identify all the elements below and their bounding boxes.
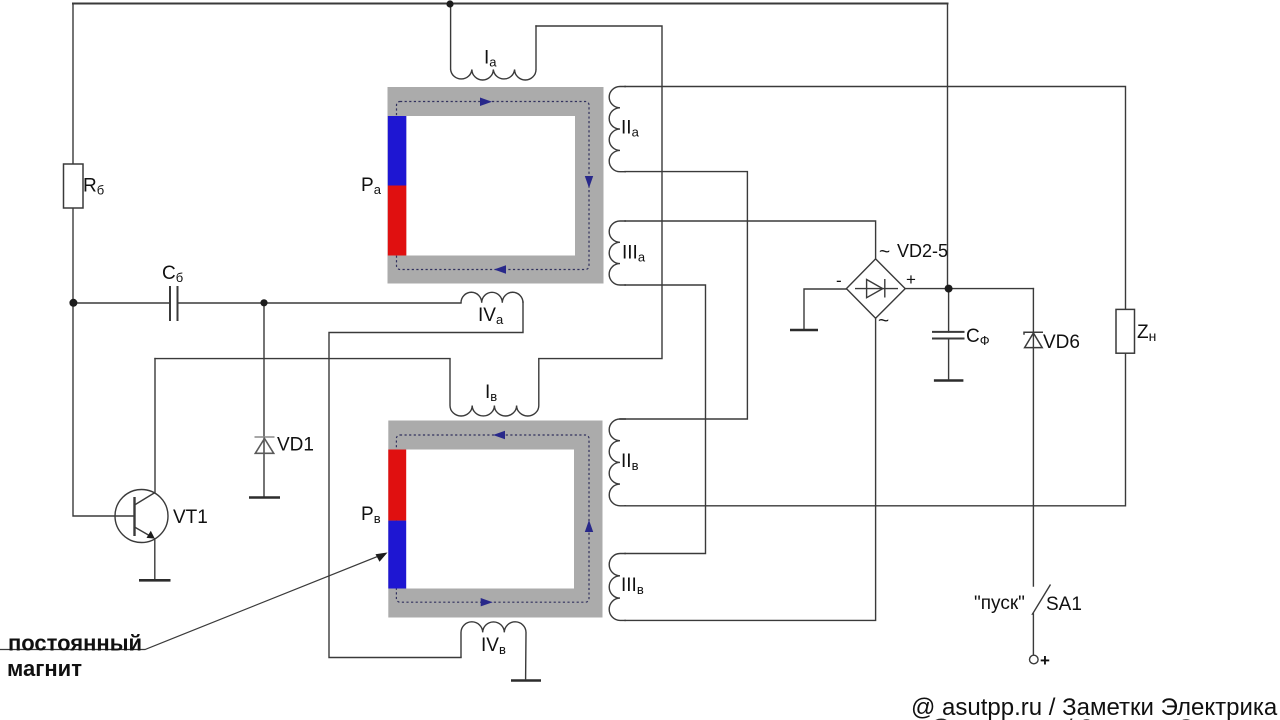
wire: IIIb bottom lead to bridge AC bottom [625, 318, 876, 620]
wire: VT1 collector vertical to Ib feed line [154, 359, 156, 492]
ground bar under VD1 [249, 496, 280, 499]
flux path core B (dashed) [396, 435, 589, 602]
diode VD1 [255, 437, 275, 453]
magnet Pb north (blue) [388, 521, 406, 589]
wire: Ia right lead [535, 26, 537, 69]
wire: node to IVa left lead [264, 302, 461, 304]
wire: R5 bottom to C node [72, 208, 74, 303]
svg-text:VD2-5: VD2-5 [897, 241, 948, 261]
svg-text:+: + [906, 270, 916, 289]
bridge VD2-5 diamond [846, 259, 905, 318]
core A ring [388, 87, 604, 284]
wire: top bus down to bridge + node [947, 4, 949, 289]
winding IIb [609, 419, 626, 506]
wire: IIIa top lead to bridge AC top [625, 221, 876, 259]
load Zn body [1116, 309, 1135, 353]
permanent magnet callout line [0, 554, 385, 650]
transistor VT1 base bar [133, 497, 135, 536]
capacitor Cf plates [932, 332, 965, 339]
wire: IIa bottom lead to IIb top lead [620, 172, 747, 419]
wire: IIa top lead to Zn top [625, 87, 1126, 310]
wire: IVa right lead down and across to IVb link [329, 302, 523, 658]
wire: C node horizontal to Cb left plate [73, 302, 170, 304]
bridge ground bar [790, 329, 818, 332]
svg-text:постоянный: постоянный [8, 631, 142, 656]
switch SA1 contact circle [1030, 655, 1039, 664]
wire: Ib right lead riser to Ia link [536, 26, 662, 359]
winding IVb [461, 622, 526, 680]
transistor VT1 collector [135, 493, 156, 506]
capacitor Cb plates [170, 286, 178, 321]
capacitor Cf lower lead [948, 339, 950, 380]
zener diode VD6 [1024, 332, 1043, 347]
wire: bridge + output to VD6 branch [905, 288, 1033, 290]
junction dot at bridge + node [945, 285, 953, 293]
flux arrow core A right (down) [585, 176, 593, 188]
wire: bridge - output to ground [804, 289, 846, 329]
ground bar under Cf [934, 379, 964, 382]
wire: top supply bus [73, 3, 948, 5]
ground bar under VT1 [139, 579, 171, 582]
svg-text:@ asutpp.ru / Заметки Электрик: @ asutpp.ru / Заметки Электрика [928, 715, 1280, 720]
svg-text:~: ~ [879, 242, 890, 263]
wire: left vertical from top bus to R5 [72, 4, 74, 165]
flux arrow core B top (left) [493, 431, 505, 440]
flux arrow core B right (up) [585, 520, 593, 532]
winding Ib [450, 359, 539, 416]
svg-text:SA1: SA1 [1046, 594, 1082, 615]
winding IVa [461, 292, 523, 303]
wire: Ia left lead to top bus [450, 4, 452, 69]
wire: bridge + node down to Cf [948, 289, 950, 332]
svg-text:"пуск": "пуск" [974, 593, 1025, 614]
magnet Pa south (red) [388, 186, 407, 256]
wire: Ib feed line left segment [155, 358, 450, 360]
ground bar under IVb [511, 679, 541, 682]
transistor VT1 emitter lead [154, 538, 156, 579]
transistor VT1 emitter with arrow [135, 527, 152, 537]
svg-text:-: - [836, 271, 842, 290]
winding Ia [451, 70, 536, 81]
wire: VD6 branch down to SA1 [1032, 289, 1034, 586]
winding IIIb [609, 554, 626, 621]
flux path core A (dashed) [397, 102, 590, 270]
svg-text:~: ~ [878, 311, 889, 332]
svg-text:VD6: VD6 [1043, 332, 1080, 353]
magnet Pb south (red) [388, 450, 406, 521]
svg-text:VD1: VD1 [277, 435, 314, 456]
junction dot at R5/Cb node [69, 299, 77, 307]
flux arrow core B bottom (right) [481, 598, 493, 606]
flux arrow core A top (right) [480, 98, 492, 107]
wire: left vertical down to VT1 base [73, 303, 133, 516]
wire: VD1 branch vertical [263, 303, 265, 497]
resistor R5 body [64, 164, 84, 208]
magnet Pa north (blue) [388, 116, 407, 186]
core B ring [388, 421, 602, 618]
winding IIIa [609, 221, 626, 285]
flux arrow core A bottom (left) [494, 265, 506, 274]
svg-text:VT1: VT1 [173, 507, 208, 528]
switch SA1 blade [1033, 585, 1051, 656]
wire: Cb right plate to IVa [178, 302, 265, 304]
winding IIa [609, 87, 626, 172]
svg-text:+: + [1040, 651, 1050, 670]
bridge internal diode [855, 279, 898, 298]
transistor VT1 circle [115, 490, 168, 543]
permanent magnet callout arrowhead [376, 553, 388, 562]
svg-text:магнит: магнит [7, 656, 82, 681]
wire: IIIa bottom lead to IIIb top lead [625, 285, 706, 554]
wire: IIb bottom lead to Zn bottom [625, 353, 1126, 506]
junction dot at top bus / Ia [446, 0, 453, 7]
junction dot at Cb/VD1/IVa node [260, 299, 267, 306]
